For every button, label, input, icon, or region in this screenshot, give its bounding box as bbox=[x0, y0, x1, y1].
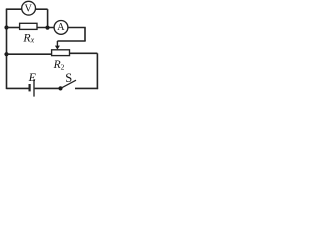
wire: switch to bottom-right corner bbox=[75, 87, 98, 89]
wire: battery to switch bbox=[35, 87, 61, 89]
switch S: left contact dot bbox=[58, 86, 62, 90]
wire: left vertical bbox=[6, 9, 8, 89]
voltmeter V bbox=[22, 1, 36, 15]
node: junction dot at V/A branch bbox=[45, 26, 49, 30]
battery E: short thick plate bbox=[29, 84, 31, 91]
wire: right vertical upper bbox=[84, 28, 86, 42]
svg-text:S: S bbox=[65, 71, 72, 85]
wire: ammeter to top-right corner bbox=[68, 27, 86, 29]
wire: horizontal over rheostat bbox=[57, 40, 85, 42]
svg-text:V: V bbox=[24, 4, 32, 15]
wiper arrow of rheostat bbox=[56, 41, 58, 46]
svg-text:Rx: Rx bbox=[22, 30, 34, 44]
node: junction dot left bbox=[4, 25, 8, 29]
node: junction dot on left rail for R2 branch bbox=[4, 52, 8, 56]
wire: vertical down from V branch bbox=[47, 9, 49, 27]
switch S: lever bbox=[61, 80, 77, 88]
wire: voltmeter right to corner bbox=[36, 8, 48, 10]
svg-text:R2: R2 bbox=[53, 59, 65, 71]
rheostat R2 bbox=[52, 50, 70, 56]
battery E: long thin plate bbox=[33, 79, 35, 96]
ammeter A bbox=[54, 21, 68, 35]
wire: right vertical lower bbox=[96, 53, 98, 89]
svg-text:A: A bbox=[57, 22, 65, 33]
resistor Rx bbox=[20, 23, 37, 29]
wire: top horizontal to voltmeter bbox=[6, 8, 22, 10]
svg-text:E: E bbox=[28, 70, 37, 84]
wire: rheostat to right edge bbox=[70, 52, 98, 54]
wire: resistor Rx to junction bbox=[37, 27, 54, 29]
wire: left dot to resistor Rx bbox=[7, 27, 20, 29]
wire: left rail to rheostat R2 left terminal bbox=[7, 53, 53, 55]
wire: bottom left to battery bbox=[7, 87, 29, 89]
